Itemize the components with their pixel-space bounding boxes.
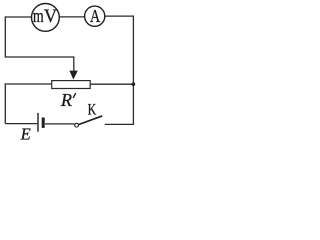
switch K blade (79, 116, 102, 125)
ammeter U2 A circle (85, 6, 105, 26)
svg-text:E: E (20, 125, 31, 143)
junction node right rail (132, 82, 136, 86)
voltmeter label mV (33, 6, 57, 27)
wire bottom-left to battery (5, 123, 37, 125)
wire A to top-right corner (105, 15, 134, 17)
wire between mV and A (59, 16, 84, 18)
wire horizontal at y57 to wiper (5, 56, 74, 58)
wire rheostat left terminal to left rail (5, 83, 52, 85)
prime mark of R' (73, 93, 76, 98)
wire switch to bottom-right corner (105, 123, 134, 125)
svg-text:R: R (60, 90, 72, 110)
wire battery to switch pivot (45, 123, 75, 125)
wire left vertical upper segment (4, 16, 6, 57)
voltmeter U1 mV circle (32, 4, 60, 32)
wire right vertical (132, 16, 134, 124)
switch K pivot circle (75, 123, 79, 127)
wire left vertical lower segment (4, 83, 6, 123)
battery E long thin plate (37, 113, 39, 132)
svg-text:V: V (44, 6, 57, 27)
battery E short thick plate (42, 118, 45, 128)
wire wiper vertical (73, 56, 75, 72)
rheostat wiper arrowhead (69, 71, 77, 80)
rheostat R' box (52, 81, 90, 89)
svg-text:A: A (90, 6, 100, 26)
svg-text:K: K (88, 102, 97, 119)
wire top-left to mV (5, 16, 31, 18)
svg-text:m: m (33, 6, 44, 27)
wire rheostat right terminal to right rail (90, 83, 133, 85)
